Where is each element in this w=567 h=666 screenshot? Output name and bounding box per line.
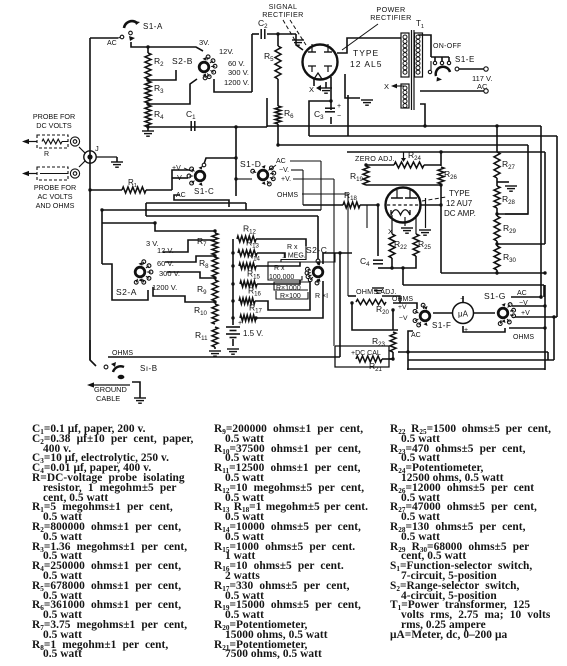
switch S1-F <box>413 303 430 327</box>
svg-text:S1-C: S1-C <box>194 187 214 196</box>
wire R27 column top <box>496 126 498 152</box>
resistor R13 <box>238 238 260 257</box>
label X tube1 <box>309 85 321 94</box>
svg-text:TYPE: TYPE <box>353 48 379 58</box>
wire R12 ladder left <box>231 239 234 318</box>
svg-text:OHMS: OHMS <box>392 296 413 303</box>
node R2 top <box>146 45 149 53</box>
switch S1-G <box>498 303 515 326</box>
wire S1-C AC return <box>174 195 229 207</box>
wire R24 row <box>366 164 441 166</box>
label Rx 100000 <box>269 265 294 281</box>
label R1 <box>128 178 137 189</box>
svg-text:CABLE: CABLE <box>96 394 120 403</box>
probe DC arrow <box>22 139 37 144</box>
wire right inner loop <box>556 136 558 317</box>
bus bottom Y352 <box>398 350 548 360</box>
svg-text:−V: −V <box>173 175 182 182</box>
wire left col drop1 <box>100 208 103 264</box>
svg-text:300 V.: 300 V. <box>228 68 249 77</box>
svg-text:+DC CAL: +DC CAL <box>351 350 381 357</box>
svg-text:R x: R x <box>287 244 298 251</box>
label AC S1G <box>517 290 527 297</box>
bus bottom Y360 <box>408 315 556 360</box>
svg-text:OHMS: OHMS <box>112 350 133 357</box>
wire S1-A to S2-B <box>131 42 203 51</box>
ground cable gnd <box>134 398 146 403</box>
wire S1-G +V <box>512 316 557 318</box>
svg-text:PROBE FOR: PROBE FOR <box>33 112 75 121</box>
wire tube2 bottom to bus <box>401 266 544 298</box>
label X tube2 <box>388 227 393 236</box>
box Rx 1MEG <box>281 246 335 262</box>
svg-text:AC: AC <box>176 192 186 199</box>
wire battery top <box>231 316 234 325</box>
label OHMS S1G <box>513 334 534 341</box>
resistor R4 <box>145 105 151 127</box>
wire S1-A feed <box>90 37 118 39</box>
wire R19 bottom row <box>366 183 443 186</box>
svg-text:TYPE: TYPE <box>449 189 470 198</box>
label 3V <box>199 38 210 47</box>
wire tube cathode down <box>313 79 315 86</box>
svg-text:AND OHMS: AND OHMS <box>36 201 75 210</box>
wire C1 net up <box>266 98 268 127</box>
resistor R17 <box>240 303 263 322</box>
ground C3 <box>361 98 373 105</box>
wire bus to R7 <box>153 221 216 232</box>
wire R2-R3 tap to S2-B <box>146 70 176 82</box>
switch S1-C <box>187 166 205 186</box>
label S1-G <box>484 291 506 301</box>
wire R6 bottom <box>276 124 279 147</box>
wires S1-D right <box>290 161 348 346</box>
wire S2-A tap 300V <box>167 272 217 280</box>
resistor R29 <box>494 216 517 241</box>
label S1-C <box>194 187 214 196</box>
svg-text:+V.: +V. <box>281 176 291 183</box>
label ON-OFF <box>433 43 462 50</box>
resistor R18 <box>343 190 360 208</box>
tube V1 12AL5 <box>303 44 338 80</box>
wire battery bottom <box>232 339 234 346</box>
wire S1-F AC drop <box>408 331 413 370</box>
switch S1-B <box>104 362 124 379</box>
label S1-E <box>455 55 475 64</box>
svg-text:AC: AC <box>411 332 421 339</box>
label X arrow <box>384 82 404 91</box>
resistor R19 <box>350 166 369 185</box>
svg-text:+: + <box>464 327 468 334</box>
wire S1-E out <box>457 68 484 70</box>
label OHMS ADJ <box>356 287 397 296</box>
wire C2 horizontal <box>252 33 296 35</box>
svg-text:X: X <box>384 82 389 91</box>
svg-text:J: J <box>95 144 99 153</box>
svg-text:μA: μA <box>458 310 469 319</box>
capacitor C3 <box>314 103 341 121</box>
label T1 <box>416 19 424 30</box>
svg-text:−V: −V <box>519 300 528 307</box>
bus bottom Y370 <box>407 368 545 370</box>
svg-text:60 V.: 60 V. <box>157 259 174 268</box>
wire R23 column <box>391 308 394 360</box>
svg-text:OHMS ADJ.: OHMS ADJ. <box>356 287 397 296</box>
wire R21 out <box>382 358 393 360</box>
resistor R6 <box>275 106 294 124</box>
label R3 <box>154 83 164 95</box>
transformer T1 <box>401 30 423 110</box>
switch S2-A <box>134 260 153 284</box>
label Rx100 <box>280 293 301 300</box>
label R2 <box>154 56 164 68</box>
leader signal <box>283 20 306 45</box>
label S2-A <box>116 287 137 297</box>
ground tube1 <box>320 82 332 93</box>
wire C1 run <box>146 125 267 128</box>
label AC S1-A <box>107 40 117 47</box>
leader power <box>342 24 378 50</box>
svg-text:Sı-B: Sı-B <box>140 364 158 373</box>
probe DC terminal <box>70 137 79 146</box>
wire tube left plate <box>296 34 303 50</box>
wire tube cathode2 down <box>329 77 332 110</box>
resistor R16 <box>239 286 262 305</box>
label OHMS S1F <box>392 296 413 303</box>
ground cable bracket <box>132 382 140 398</box>
resistor R22 <box>389 234 408 258</box>
wire meter plus drop <box>463 326 505 332</box>
label +V S1G <box>521 310 530 317</box>
capacitor C2 <box>258 18 268 39</box>
svg-text:12 AU7: 12 AU7 <box>446 199 473 208</box>
svg-text:−V: −V <box>399 315 408 322</box>
label Rx 1MEG <box>282 244 306 260</box>
wire R15 right <box>257 280 300 284</box>
resistor R12 <box>237 224 257 243</box>
svg-text:S1-G: S1-G <box>484 291 506 301</box>
svg-text:+: + <box>238 320 242 327</box>
wire S1-G OHMS <box>509 327 545 329</box>
terminal 117V bottom <box>484 89 488 93</box>
wire R26 top <box>439 150 442 166</box>
label -V S1-C <box>173 175 182 182</box>
resistor R23 <box>372 332 396 352</box>
wire R1 to S1-C brackets <box>172 170 190 190</box>
resistor R15 <box>240 269 261 288</box>
bus Y203 <box>146 203 246 210</box>
label 3V S2A <box>146 239 159 248</box>
meter uA <box>453 296 474 334</box>
label 117V AC <box>472 74 492 91</box>
svg-text:ON-OFF: ON-OFF <box>433 43 462 50</box>
label +V S1F <box>398 304 407 311</box>
resistor R30 <box>494 246 517 270</box>
wire S1-C top loop <box>202 156 238 167</box>
resistor R11 <box>195 327 218 347</box>
svg-text:DC VOLTS: DC VOLTS <box>36 121 72 130</box>
wire S1-G AC <box>511 295 543 298</box>
wire meter to S1-G <box>474 312 495 314</box>
svg-text:+V: +V <box>398 304 407 311</box>
label S2-C <box>306 245 327 255</box>
wire R30 bottom <box>441 270 547 275</box>
wire R12 right <box>256 239 306 246</box>
probe AC arrow <box>22 171 37 176</box>
jack J <box>79 147 117 167</box>
resistor R20 <box>356 299 390 316</box>
ground tube2a <box>401 228 413 233</box>
svg-text:1200 V.: 1200 V. <box>152 283 177 292</box>
label -V S1G <box>519 300 528 307</box>
switch S2-C <box>305 259 323 285</box>
svg-text:12 V.: 12 V. <box>157 246 174 255</box>
switch S1-A <box>118 21 140 41</box>
wire C3 right link <box>347 95 349 136</box>
label 60V <box>228 59 245 68</box>
label J <box>95 144 99 153</box>
svg-text:RECTIFIER: RECTIFIER <box>370 13 412 22</box>
resistor R14 <box>239 251 261 270</box>
wire R13 right <box>257 253 285 258</box>
svg-text:60 V.: 60 V. <box>228 59 245 68</box>
wire transformer bottom to AC line <box>420 90 484 92</box>
svg-text:+: + <box>337 103 341 110</box>
label AC S1-D <box>271 158 286 169</box>
wire C3 left link <box>309 101 331 136</box>
label 12V <box>219 47 234 56</box>
ground cable arrow <box>87 382 130 387</box>
label POWER RECTIFIER <box>370 5 412 22</box>
wire R20 right <box>382 296 400 303</box>
svg-text:AC: AC <box>477 82 488 91</box>
wire meter top <box>462 296 464 302</box>
svg-text:S2-C: S2-C <box>306 245 327 255</box>
box Rx1000 <box>274 282 310 290</box>
wire R17 right <box>254 281 323 320</box>
label TYPE 12AL5 <box>350 48 382 69</box>
label S2-B <box>172 56 193 66</box>
resistor R25 <box>413 234 432 256</box>
wire R5 top <box>276 32 279 46</box>
bus Y216 <box>102 203 318 264</box>
wire S2-A box <box>102 264 148 300</box>
label S1-F <box>432 321 451 330</box>
svg-text:GROUND: GROUND <box>94 385 127 394</box>
svg-text:OHMS: OHMS <box>277 192 298 199</box>
svg-text:S1-E: S1-E <box>455 55 475 64</box>
svg-text:12V.: 12V. <box>219 47 234 56</box>
label TYPE 12AU7 <box>444 189 476 218</box>
switch S2-B <box>199 55 217 80</box>
wire S1-F to meter <box>433 312 452 314</box>
wire R19 top <box>364 163 367 166</box>
bus Y145 <box>278 144 528 146</box>
bus Y126 right <box>267 124 541 127</box>
wire heater ground link <box>345 74 360 98</box>
label +V S1-D <box>281 176 291 183</box>
wire S2-C right vertical <box>339 253 341 357</box>
wire R26 bottom <box>439 185 442 273</box>
label 300V <box>228 68 249 77</box>
svg-text:1200 V.: 1200 V. <box>224 78 249 87</box>
label AC S1F <box>411 332 421 339</box>
resistor R7 <box>197 233 218 255</box>
resistor R27 <box>494 152 516 178</box>
label Rx1 <box>315 293 328 300</box>
svg-text:+V: +V <box>172 165 181 172</box>
svg-text:RECTIFIER: RECTIFIER <box>262 10 304 19</box>
label 1200V S2A <box>152 283 177 292</box>
wire tube right to transformer <box>337 38 401 53</box>
box Rx 100000 <box>268 262 302 280</box>
svg-text:S1-A: S1-A <box>143 22 163 31</box>
label 1.5V <box>243 329 263 338</box>
ground top small <box>292 34 304 45</box>
label -V S1F <box>399 315 408 322</box>
ground C4 <box>372 284 384 293</box>
probe for AC volts box <box>37 167 68 180</box>
label 12V S2A <box>157 246 174 255</box>
terminal 117V top <box>484 67 488 71</box>
wire R11 bottom gnd <box>214 347 216 349</box>
label +V S1-C <box>172 165 193 172</box>
svg-text:1 MEG.: 1 MEG. <box>282 253 306 260</box>
wire R16 right <box>255 282 310 310</box>
wire ohms switch drop <box>90 340 96 366</box>
label OHMS S1-D <box>277 192 298 199</box>
wire S2-A tap 1200V <box>153 287 217 304</box>
label Rx1000 <box>276 285 301 292</box>
svg-text:S2-B: S2-B <box>172 56 193 66</box>
wire dc cal box <box>335 346 389 367</box>
svg-text:ZERO ADJ.: ZERO ADJ. <box>355 154 395 163</box>
svg-text:300 V.: 300 V. <box>159 269 180 278</box>
wire right outer loop <box>540 126 542 297</box>
svg-text:R: R <box>44 151 49 158</box>
svg-text:AC: AC <box>517 290 527 297</box>
ground tube2b <box>419 230 431 235</box>
label R4 <box>154 109 164 121</box>
wire R22 R25 bottom <box>378 256 416 270</box>
battery B1 <box>226 320 242 338</box>
label 60V S2A <box>157 259 174 268</box>
resistor R5 <box>264 46 281 79</box>
wire C3 bottom stub <box>330 117 332 124</box>
wire inner box R27 <box>505 145 528 214</box>
svg-text:AC VOLTS: AC VOLTS <box>37 192 72 201</box>
resistor R24 <box>394 150 424 168</box>
wire R14 right <box>256 262 300 266</box>
svg-text:AC: AC <box>107 40 117 47</box>
wire R29-R30 <box>495 241 545 246</box>
wire R27-R28 <box>497 178 509 186</box>
wire S1-G -V <box>512 305 545 307</box>
label DC CAL <box>351 350 381 357</box>
wire C2 branch vertical <box>251 34 253 92</box>
wire right loop x545 <box>543 152 546 370</box>
probe AC terminal <box>70 169 79 178</box>
bus Y136 <box>309 135 557 137</box>
resistor R9 <box>197 280 218 301</box>
label PROBE FOR DC VOLTS <box>33 112 75 130</box>
resistor R10 <box>194 304 218 324</box>
wire S2-B 1200V run <box>214 79 252 92</box>
wire S1-E contacts bus <box>431 57 449 61</box>
label 300V S2A <box>159 269 180 278</box>
svg-text:R×1000: R×1000 <box>276 285 301 292</box>
bus Y210 <box>102 209 321 211</box>
svg-text:−: − <box>460 296 464 303</box>
wire R3-R4 tap to S2-B <box>146 79 197 106</box>
svg-text:12 AL5: 12 AL5 <box>350 59 382 69</box>
label AC S1-C <box>176 192 186 199</box>
wire S2-C out <box>323 251 352 264</box>
label S1-A <box>143 22 163 31</box>
svg-text:DC AMP.: DC AMP. <box>444 209 476 218</box>
svg-text:PROBE FOR: PROBE FOR <box>34 183 76 192</box>
wire R5 to R6 <box>277 79 279 106</box>
wire transformer sec tap <box>420 104 425 126</box>
resistor R28 <box>494 186 516 208</box>
resistor R1 <box>122 187 146 193</box>
bus Y152 <box>347 151 545 153</box>
capacitor C4 <box>360 256 383 284</box>
switch S1-D <box>234 165 275 186</box>
label SIGNAL RECTIFIER <box>262 2 304 19</box>
wire S2-A tap 60V <box>165 254 217 262</box>
wire tube2 plate-right drop <box>425 198 427 228</box>
label R probe <box>44 151 49 158</box>
label -V S1-D <box>279 167 289 174</box>
ground R11 <box>209 351 221 356</box>
wire tube2 grid right <box>421 204 442 206</box>
leader 12AU7 <box>422 197 446 201</box>
svg-text:R ×I: R ×I <box>315 293 328 300</box>
svg-text:+V: +V <box>521 310 530 317</box>
resistor R2 <box>145 53 151 79</box>
label GROUND CABLE <box>94 385 127 403</box>
label 1200V <box>224 78 249 87</box>
svg-text:S2-A: S2-A <box>116 287 137 297</box>
switch S1-E <box>428 61 459 82</box>
svg-text:OHMS: OHMS <box>513 334 534 341</box>
label PROBE FOR AC VOLTS AND OHMS <box>34 183 76 210</box>
bus bottom Y357 <box>108 356 340 358</box>
svg-text:S1-F: S1-F <box>432 321 451 330</box>
wire R18 row <box>303 203 380 256</box>
wire R1 run <box>88 188 172 191</box>
resistor R26 <box>438 167 458 184</box>
wire ohms adj drop <box>348 295 356 297</box>
svg-text:1.5 V.: 1.5 V. <box>243 329 263 338</box>
svg-text:−: − <box>337 113 341 120</box>
svg-text:S1-D: S1-D <box>240 159 261 169</box>
ground battery <box>227 349 239 354</box>
wire transformer top right <box>418 35 431 57</box>
wire S1-F left contacts <box>350 301 398 330</box>
resistor R3 <box>145 81 151 103</box>
probe for DC volts box <box>37 135 68 148</box>
label ZERO ADJ <box>355 154 395 163</box>
svg-text:AC: AC <box>276 158 286 165</box>
svg-text:X: X <box>309 85 314 94</box>
svg-text:3V.: 3V. <box>199 38 210 47</box>
resistor R8 <box>199 257 218 277</box>
svg-text:R x: R x <box>274 265 285 272</box>
ground at jack <box>111 157 123 167</box>
ground R28 <box>505 182 517 191</box>
